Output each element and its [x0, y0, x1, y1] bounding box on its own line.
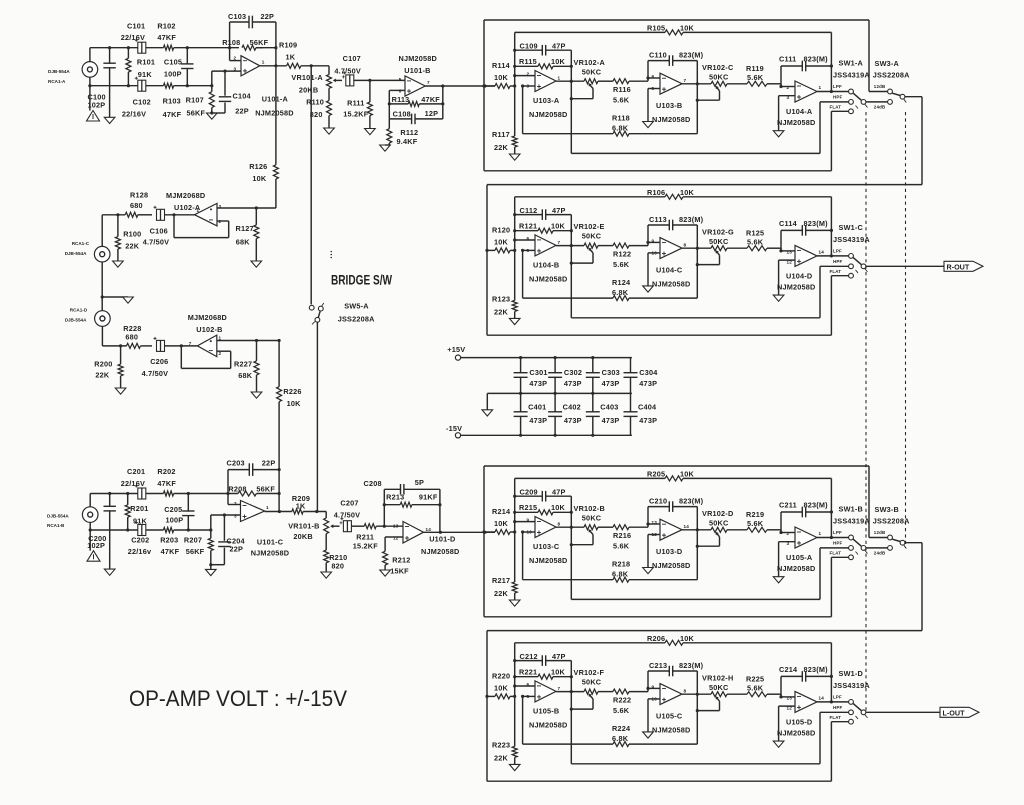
capacitor C100 — [103, 46, 115, 117]
svg-text:R108: R108 — [222, 38, 240, 47]
switch SW5-A arm — [312, 303, 324, 324]
label 5.6K r3 [blk1] — [747, 73, 764, 82]
svg-text:50KC: 50KC — [709, 73, 729, 82]
feedback loop U102-B — [181, 346, 230, 369]
label U103-C [blk3] — [533, 542, 560, 551]
wire pin2p row [blk1] — [781, 86, 795, 88]
label HPF [blk4] — [833, 705, 842, 710]
label 473P C402 — [564, 416, 582, 425]
label 47KF R103 — [163, 110, 182, 119]
svg-text:VR102-E: VR102-E — [574, 222, 605, 231]
label C105 — [164, 57, 182, 66]
op-amp U104-D [blk2] — [795, 245, 817, 266]
potentiometer VR102-A 50KC [blk1] — [584, 79, 613, 84]
wire pin2p row [blk2] — [781, 250, 795, 252]
label SW5-A — [344, 302, 369, 311]
svg-text:473P: 473P — [529, 379, 547, 388]
wire out1 row [blk3] — [556, 526, 584, 529]
pin o U105-A [blk3] — [819, 531, 822, 536]
label NJM2058D U101-C — [251, 549, 290, 558]
resistor R111 15.2KF — [367, 80, 372, 128]
label DJB-554A (RCA1-C) — [65, 251, 87, 256]
label R202 — [157, 467, 175, 476]
resistor R208 56KF — [238, 491, 256, 496]
svg-text:HPF: HPF — [833, 540, 842, 545]
svg-text:C110: C110 — [649, 50, 667, 59]
chassis ground below jack B — [87, 551, 100, 562]
resistor R224 6.8K [blk4] — [523, 696, 698, 746]
svg-text:VR102-G: VR102-G — [702, 227, 734, 236]
pin 3 U102-A — [219, 204, 222, 209]
resistor R102 47KF — [163, 45, 173, 50]
label 22K rg [blk1] — [494, 143, 509, 152]
label R223 [blk4] — [492, 740, 510, 749]
label 10K top [blk2] — [680, 188, 695, 197]
svg-text:10K: 10K — [680, 470, 695, 479]
svg-text:3: 3 — [234, 514, 237, 519]
resistor R202 47KF — [163, 491, 173, 496]
svg-text:FLAT: FLAT — [830, 269, 842, 274]
wire out2 row [blk3] — [682, 528, 711, 531]
pin a U103-D [blk3] — [652, 520, 658, 525]
svg-text:U104-C: U104-C — [656, 265, 683, 274]
label VR101-B — [288, 521, 319, 530]
label C104 — [233, 92, 252, 101]
potentiometer VR102-F 50KC [blk4] — [584, 689, 613, 694]
svg-text:2: 2 — [234, 501, 237, 506]
capacitor C208 5P — [384, 484, 440, 532]
label 680 R228 — [125, 332, 138, 341]
wiper VR101-B — [330, 524, 339, 528]
svg-text:3: 3 — [527, 84, 530, 89]
label 12P C108 — [425, 109, 439, 118]
switch SW1-C tick [blk2] — [856, 269, 868, 273]
wire U102-B output row — [217, 339, 281, 342]
svg-text:C103: C103 — [228, 12, 246, 21]
wire pin3p row [blk2] — [779, 260, 795, 295]
label +15V — [447, 345, 465, 354]
label R203 — [160, 535, 178, 544]
wire stage2 column [blk1] — [696, 61, 699, 134]
label R227 — [234, 359, 252, 368]
capacitor C103 22P — [230, 16, 276, 48]
capacitor C301 473P — [514, 358, 528, 394]
switch SW1-B LPF contact [blk3] — [849, 535, 854, 540]
label C107 — [343, 54, 361, 63]
svg-text:+: + — [342, 75, 346, 81]
svg-text:R207: R207 — [184, 535, 202, 544]
label 50KC vrb [blk2] — [709, 237, 729, 246]
wire HPF line [blk4] — [571, 712, 848, 764]
label R217 [blk3] — [492, 576, 510, 585]
wire FLAT line [blk2] — [487, 276, 849, 336]
svg-text:14: 14 — [819, 249, 825, 254]
ground for R111 — [365, 129, 376, 135]
pin 1 U102-A — [197, 208, 200, 213]
label R109 — [279, 41, 297, 50]
svg-text:22K: 22K — [125, 241, 140, 250]
svg-text:2: 2 — [234, 56, 237, 61]
svg-text:22K: 22K — [95, 371, 110, 380]
label R222 [blk4] — [613, 695, 631, 704]
wire 12dB row [blk1] — [869, 91, 888, 93]
label HPF [blk2] — [833, 259, 842, 264]
potentiometer VR102-D 50KC [blk3] — [711, 527, 747, 532]
switch SW1-B common [blk3] — [861, 546, 866, 551]
svg-text:LPF: LPF — [833, 694, 842, 699]
wire FLAT line [blk1] — [484, 111, 849, 171]
svg-text:RCA1-A: RCA1-A — [48, 79, 66, 84]
svg-text:R211: R211 — [356, 533, 374, 542]
svg-text:SW1-C: SW1-C — [839, 223, 864, 232]
label 56KF R107 — [187, 108, 206, 117]
label 6.8K rb [blk4] — [612, 734, 629, 743]
svg-text:R101: R101 — [137, 57, 155, 66]
label 91K R201 — [133, 516, 148, 525]
svg-text:5.6K: 5.6K — [613, 706, 630, 715]
label JSS2208A [blk3] — [873, 517, 910, 526]
resistor R200 22K — [118, 346, 123, 388]
pin a U105-B [blk4] — [527, 682, 530, 687]
svg-text:1: 1 — [219, 336, 222, 341]
wire top rail jog to U101-A pin2 — [228, 46, 241, 60]
svg-text:U105-C: U105-C — [656, 711, 683, 720]
op-amp U105-D [blk4] — [795, 691, 817, 712]
svg-text:C114: C114 — [779, 219, 798, 228]
svg-text:SW3-B: SW3-B — [875, 505, 900, 514]
resistor R112 9.4KF — [387, 119, 392, 145]
svg-text:JSS2208A: JSS2208A — [873, 517, 910, 526]
ground for C200 — [104, 569, 115, 575]
op-amp U104-B [blk2] — [535, 235, 556, 256]
label R122 [blk2] — [613, 249, 631, 258]
svg-text:100P: 100P — [164, 69, 182, 78]
svg-text:U104-A: U104-A — [786, 107, 813, 116]
input jack RCA1-B — [82, 507, 98, 523]
label 10K rf1 [blk2] — [551, 221, 566, 230]
svg-text:R125: R125 — [746, 228, 764, 237]
svg-text:U103-B: U103-B — [656, 101, 682, 110]
wire 24dB row [blk1] — [866, 101, 888, 103]
capacitor C108 12P — [389, 104, 443, 124]
ground for R207/C204 — [206, 569, 217, 575]
svg-text:102P: 102P — [88, 100, 106, 109]
svg-text:C207: C207 — [340, 498, 358, 507]
label 473P C302 — [564, 379, 582, 388]
pin 2 U102-B — [219, 351, 222, 356]
label C303 — [602, 368, 620, 377]
label 823(M) c2 [blk1] — [679, 50, 704, 59]
svg-text:20KB: 20KB — [299, 85, 318, 94]
op-amp U101-B — [405, 76, 425, 96]
label 47KF R202 — [157, 479, 176, 488]
wire stage1 column [blk2] — [570, 215, 573, 299]
label 47KF R102 — [157, 33, 176, 42]
label NJM2058D U105-C [blk4] — [652, 725, 691, 734]
svg-text:NJM2058D: NJM2058D — [652, 115, 691, 124]
label JSS2208A [blk1] — [873, 71, 910, 80]
label 680 R128 — [130, 201, 143, 210]
wire R205 10K top line [blk3] — [482, 466, 869, 617]
switch SW1-C FLAT contact [blk2] — [849, 273, 854, 278]
svg-text:R114: R114 — [492, 61, 511, 70]
tag R-OUT — [944, 261, 983, 271]
label VR102-F [blk4] — [574, 668, 605, 677]
label LPF [blk2] — [833, 248, 842, 253]
svg-text:68K: 68K — [236, 238, 251, 247]
ground R123 [blk2] — [509, 318, 520, 324]
resistor R209 1K — [292, 509, 326, 514]
capacitor C101 22/16V — [135, 39, 146, 54]
label 15KF R212 — [390, 566, 409, 575]
label SW1-A [blk1] — [839, 59, 864, 68]
label LPF [blk3] — [833, 530, 842, 535]
svg-text:8: 8 — [684, 688, 687, 693]
wire stage2 column [blk4] — [696, 671, 699, 744]
pin b U105-A [blk3] — [787, 541, 790, 546]
capacitor C107 4.7/50V — [343, 71, 405, 86]
svg-text:C113: C113 — [649, 215, 667, 224]
svg-text:C106: C106 — [150, 227, 168, 236]
ground stage3 [blk4] — [773, 741, 784, 747]
wire top rail A — [90, 47, 263, 49]
resistor R210 820 — [324, 550, 329, 572]
svg-text:C209: C209 — [520, 488, 538, 497]
svg-text:C211: C211 — [779, 501, 797, 510]
label FLAT [blk4] — [830, 715, 842, 720]
svg-text:823(M): 823(M) — [804, 665, 829, 674]
label RCA1-A — [48, 79, 66, 84]
pin b U103-A [blk1] — [527, 84, 530, 89]
pin a U103-B [blk1] — [652, 74, 655, 79]
label NJM2058D U104-C [blk2] — [652, 279, 691, 288]
label 10K top [blk1] — [680, 24, 695, 33]
label R105 [blk1] — [647, 24, 665, 33]
resistor R222 5.6K [blk4] — [613, 687, 660, 694]
pin 3 U101-A — [234, 67, 237, 72]
switch SW1-A HPF contact [blk1] — [849, 100, 854, 105]
svg-text:LPF: LPF — [833, 84, 842, 89]
label LPF [blk4] — [833, 694, 842, 699]
label 22/16v C202 — [128, 547, 152, 556]
switch SW1-C LPF contact [blk2] — [849, 254, 854, 259]
svg-text:56KF: 56KF — [250, 38, 269, 47]
label SW1-D [blk4] — [839, 669, 864, 678]
svg-text:LPF: LPF — [833, 530, 842, 535]
svg-text:5: 5 — [527, 248, 530, 253]
ground R117 [blk1] — [509, 154, 520, 160]
switch SW1-C HPF contact [blk2] — [849, 264, 854, 269]
svg-text:5.6K: 5.6K — [747, 683, 764, 692]
svg-text:10K: 10K — [252, 174, 267, 183]
label NJM2058D U103-B [blk1] — [652, 115, 691, 124]
svg-text:FLAT: FLAT — [830, 104, 842, 109]
label JSS4319A [blk2] — [833, 235, 870, 244]
label R100 — [123, 230, 141, 239]
svg-text:6: 6 — [399, 89, 402, 94]
label 56KF R207 — [186, 547, 205, 556]
wire out3 row [blk3] — [817, 536, 849, 539]
capacitor C204 22P — [211, 515, 231, 565]
label C204 — [227, 537, 246, 546]
svg-text:56KF: 56KF — [186, 547, 205, 556]
svg-text:R222: R222 — [613, 695, 631, 704]
svg-text:R206: R206 — [647, 634, 665, 643]
label DJB-554A (RCA1-A) — [48, 69, 70, 74]
label 5.6K r2 [blk4] — [613, 706, 630, 715]
label 5.6K r3 [blk4] — [747, 683, 764, 692]
label 823(M) c2 [blk2] — [679, 215, 704, 224]
svg-text:15KF: 15KF — [390, 566, 409, 575]
svg-text:10K: 10K — [287, 399, 302, 408]
switch SW1-A tick [blk1] — [856, 104, 868, 108]
svg-text:8: 8 — [558, 522, 561, 527]
svg-text:C303: C303 — [602, 368, 620, 377]
label 9.4KF R112 — [397, 137, 418, 146]
resistor R216 5.6K [blk3] — [613, 522, 660, 529]
resistor R228 680 — [119, 343, 152, 348]
svg-text:C109: C109 — [520, 42, 538, 51]
label R123 [blk2] — [492, 294, 510, 303]
svg-text:C213: C213 — [649, 661, 667, 670]
svg-text:13: 13 — [393, 524, 399, 529]
label C403 — [600, 402, 618, 411]
wire node column [blk2] — [513, 197, 516, 301]
ground PSU — [482, 410, 493, 416]
label VR102-G [blk2] — [702, 227, 734, 236]
svg-text:NJM2058D: NJM2058D — [652, 561, 691, 570]
input jack RCA1-C — [94, 246, 110, 262]
svg-text:473P: 473P — [529, 416, 547, 425]
capacitor C110 823(M) [blk1] — [648, 55, 697, 78]
capacitor C206 4.7/50V — [154, 337, 198, 352]
label 473P C401 — [529, 416, 547, 425]
svg-text:50KC: 50KC — [582, 678, 602, 687]
switch SW1-B HPF contact [blk3] — [849, 546, 854, 551]
label R116 [blk1] — [613, 85, 631, 94]
dashed gang line SW1 — [865, 112, 867, 712]
label 47KF R113 — [421, 95, 440, 104]
wire U101-D pin12 — [385, 537, 403, 551]
svg-text:C402: C402 — [563, 402, 581, 411]
label NJM2058D U104-D [blk2] — [777, 282, 816, 291]
label 10K [blk3] — [494, 519, 509, 528]
label FLAT [blk2] — [830, 269, 842, 274]
svg-text:1: 1 — [197, 208, 200, 213]
label C112 [blk2] — [520, 206, 538, 215]
svg-text:C104: C104 — [233, 92, 252, 101]
capacitor C403 473P — [586, 393, 600, 435]
svg-text:473P: 473P — [564, 379, 582, 388]
svg-text:VR102-A: VR102-A — [574, 58, 606, 67]
svg-text:HPF: HPF — [833, 259, 842, 264]
wire out3 row [blk1] — [817, 90, 849, 93]
label C214 [blk4] — [779, 665, 798, 674]
svg-text:C302: C302 — [564, 368, 582, 377]
terminal -15V — [455, 433, 460, 438]
svg-text:R111: R111 — [347, 98, 364, 107]
svg-text:7: 7 — [427, 80, 430, 85]
svg-text:C107: C107 — [343, 54, 361, 63]
label 91KF R213 — [419, 493, 438, 502]
label 68K R127 — [236, 238, 251, 247]
label JSS4319A [blk3] — [833, 516, 870, 525]
label 50KC vra [blk3] — [582, 513, 602, 522]
svg-text:47KF: 47KF — [163, 110, 182, 119]
capacitor C402 473P — [548, 393, 562, 435]
ground R217 [blk3] — [509, 600, 520, 606]
svg-text:10K: 10K — [494, 519, 509, 528]
svg-text:RCA1-C: RCA1-C — [72, 241, 90, 246]
label 47P c1 [blk2] — [552, 206, 566, 215]
label 6.8K rb [blk2] — [612, 288, 629, 297]
svg-text:823(M): 823(M) — [804, 219, 829, 228]
capacitor C203 22P — [228, 463, 279, 493]
wiper VR102-F 50KC [blk4] — [571, 694, 593, 710]
label C302 — [564, 368, 582, 377]
svg-text:R113: R113 — [392, 95, 410, 104]
svg-text:R205: R205 — [647, 470, 665, 479]
label C200 — [88, 534, 106, 543]
svg-text:+: + — [339, 521, 343, 527]
svg-text:12: 12 — [393, 536, 399, 541]
svg-text:R213: R213 — [386, 493, 404, 502]
wire bridge vertical from ch-A — [310, 66, 312, 305]
label DJB-554A (RCA1-B) — [47, 514, 69, 519]
svg-text:823(M): 823(M) — [679, 661, 704, 670]
svg-text:VR102-H: VR102-H — [702, 673, 733, 682]
wiper VR102-C 50KC [blk1] — [697, 86, 719, 101]
svg-text:FLAT: FLAT — [830, 550, 842, 555]
resistor R205 10K [blk3] — [515, 476, 832, 512]
wire jack D bottom to rail — [102, 326, 126, 346]
resistor R116 5.6K [blk1] — [613, 76, 660, 83]
svg-text:1: 1 — [819, 85, 822, 90]
label U104-A [blk1] — [786, 107, 813, 116]
label NJM2058D U104-B [blk2] — [529, 274, 568, 283]
label 823(M) c3 [blk4] — [804, 665, 829, 674]
label R103 — [163, 96, 181, 105]
svg-text:C203: C203 — [227, 458, 245, 467]
pin a U103-C [blk3] — [527, 518, 530, 523]
label C201 — [127, 467, 145, 476]
svg-text:R221: R221 — [519, 667, 537, 676]
resistor R115 10K [blk1] — [515, 64, 573, 69]
label 22P C204 — [230, 544, 244, 553]
label 100P — [164, 69, 182, 78]
label NJM2058D U105-B [blk4] — [529, 720, 568, 729]
svg-text:R203: R203 — [160, 535, 178, 544]
label VR102-H [blk4] — [702, 673, 733, 682]
pin o U105-C [blk4] — [684, 688, 687, 693]
pin b U105-C [blk4] — [652, 696, 658, 701]
resistor R114 10K [blk1] — [495, 84, 515, 89]
label R206 [blk4] — [647, 634, 665, 643]
resistor R215 10K [blk3] — [515, 510, 573, 515]
svg-text:R225: R225 — [746, 674, 764, 683]
label 10K rf1 [blk4] — [551, 667, 566, 676]
op-amp U105-C [blk4] — [660, 684, 682, 705]
svg-text:U105-D: U105-D — [786, 717, 812, 726]
label U103-A [blk1] — [533, 96, 560, 105]
wire input rail [blk2] — [487, 249, 495, 251]
wire pin5 ground [blk3] — [648, 535, 660, 568]
label C113 [blk2] — [649, 215, 667, 224]
pin 7 U102-B — [189, 341, 192, 346]
svg-text:24dB: 24dB — [874, 104, 886, 109]
svg-text:VR102-B: VR102-B — [574, 504, 605, 513]
capacitor C207 4.7/50V — [340, 517, 364, 532]
